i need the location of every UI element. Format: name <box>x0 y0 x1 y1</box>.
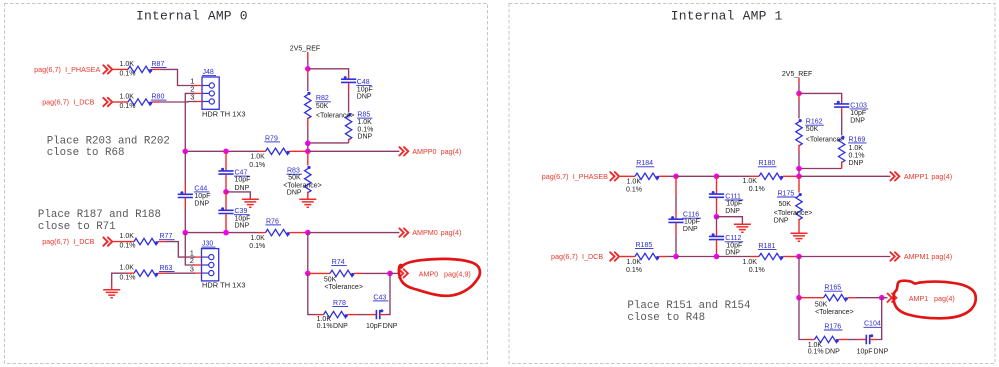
resistor R83 <box>305 166 311 193</box>
svg-text:R175: R175 <box>778 190 795 197</box>
wire loop bottom <box>308 142 349 144</box>
svg-text:10pF: 10pF <box>850 110 866 117</box>
label J48 refdes <box>202 69 216 76</box>
wire AMPP0 left segment <box>185 150 258 152</box>
svg-text:I_DCB: I_DCB <box>582 252 603 261</box>
svg-text:50K: 50K <box>288 174 301 181</box>
port I_PHASEA pag(6,7) <box>34 65 100 74</box>
svg-text:R165: R165 <box>824 285 841 292</box>
label C39 refdes <box>234 208 250 215</box>
wire C103 top lead <box>841 100 843 104</box>
svg-text:0.1%: 0.1% <box>120 274 136 281</box>
svg-text:2V5_REF: 2V5_REF <box>782 71 812 78</box>
svg-text:pag(4): pag(4) <box>931 252 952 261</box>
junction AMPM1 output node <box>796 254 802 260</box>
label R176 refdes <box>824 323 843 330</box>
wire AMPP1 to output <box>799 175 890 177</box>
wire R74 left lead <box>308 272 330 274</box>
junction C111 C112 ground <box>714 214 720 220</box>
svg-text:AMPP1: AMPP1 <box>904 172 928 181</box>
svg-text:J30: J30 <box>202 241 213 248</box>
wire C103 bottom lead <box>841 108 843 115</box>
resistor R85 <box>345 113 351 140</box>
svg-text:HDR TH 1X3: HDR TH 1X3 <box>202 281 246 290</box>
resistor R87 <box>128 66 152 72</box>
wire R175 to ground <box>798 219 800 233</box>
wire C47 bottom lead <box>225 175 227 192</box>
junction AMPM0 at C44 column <box>183 230 189 236</box>
label R181 refdes <box>758 243 777 250</box>
svg-text:50K: 50K <box>324 276 337 283</box>
capacitor C111 <box>709 191 724 197</box>
svg-text:1.0K: 1.0K <box>317 316 332 323</box>
capacitor C47 <box>218 168 233 174</box>
svg-text:<Tolerance>: <Tolerance> <box>774 210 813 217</box>
resistor R169 <box>839 136 845 163</box>
svg-text:0.1%: 0.1% <box>749 186 765 193</box>
wire R175 top lead <box>798 176 800 192</box>
wire right loop bottom <box>799 168 842 170</box>
resistor R175 <box>796 193 802 220</box>
wire R87 to J48 pin 1 <box>161 69 196 85</box>
port I_DCB pag(6,7) right <box>551 252 603 261</box>
svg-text:1.0K: 1.0K <box>120 233 135 240</box>
port AMPP1 pag(4) <box>904 172 952 181</box>
port AMPM0 pag(4) <box>412 228 461 237</box>
wire R78 left lead <box>315 314 324 316</box>
resistor R78 <box>324 311 348 317</box>
resistor R181 <box>759 253 783 259</box>
input chevron I_DCB lower <box>103 237 112 245</box>
svg-text:R63: R63 <box>160 265 173 272</box>
wire C111 bottom lead <box>716 198 718 217</box>
label R180 refdes <box>758 160 777 167</box>
svg-text:pag(4): pag(4) <box>931 172 952 181</box>
capacitor C116 <box>668 216 683 222</box>
svg-text:pag(6,7): pag(6,7) <box>542 172 569 181</box>
svg-text:Place R151 and R154: Place R151 and R154 <box>627 300 750 312</box>
label R165 refdes <box>824 285 843 292</box>
junction AMPM1 at C112 column <box>714 254 720 260</box>
svg-text:DNP: DNP <box>725 208 740 215</box>
wire R181 right lead <box>783 256 799 258</box>
wire R79 right lead <box>290 150 308 152</box>
wire ground stub left <box>111 284 113 290</box>
wire AMP0 loop left side <box>308 273 315 314</box>
wire R74 right lead <box>354 272 362 274</box>
port AMPM1 pag(4) <box>904 252 952 261</box>
svg-text:C44: C44 <box>194 185 207 192</box>
wire to C116 <box>675 195 677 210</box>
svg-text:R80: R80 <box>152 94 165 101</box>
label R74 refdes <box>331 259 347 266</box>
svg-text:J48: J48 <box>203 69 214 76</box>
junction AMP1 left <box>796 295 802 301</box>
svg-text:10pF: 10pF <box>194 193 210 200</box>
highlight circle around AMP0 <box>399 259 480 296</box>
wire 2V5_REF stub right <box>798 78 800 85</box>
wire AMPM1 to R181 <box>717 256 751 258</box>
svg-text:<Tolerance>: <Tolerance> <box>324 284 363 291</box>
output chevron AMPM0 <box>399 228 408 236</box>
svg-text:10pF: 10pF <box>357 86 373 93</box>
svg-text:DNP: DNP <box>725 250 740 257</box>
svg-text:R74: R74 <box>332 259 345 266</box>
svg-text:R85: R85 <box>357 112 370 119</box>
wire C116 top lead <box>675 176 677 195</box>
svg-text:10pF: 10pF <box>726 243 742 250</box>
svg-text:Internal AMP 0: Internal AMP 0 <box>136 9 248 24</box>
svg-text:close to R68: close to R68 <box>47 147 125 159</box>
svg-text:1.0K: 1.0K <box>743 259 758 266</box>
svg-text:0.1%: 0.1% <box>317 323 333 330</box>
label C44 refdes <box>194 185 210 192</box>
svg-text:1.0K: 1.0K <box>627 178 642 185</box>
svg-text:3: 3 <box>190 264 194 273</box>
output chevron AMP1 <box>888 294 897 302</box>
wire AMPP1 to R180 <box>717 175 751 177</box>
wire R83 top lead <box>307 151 309 165</box>
svg-text:50K: 50K <box>806 126 819 133</box>
svg-text:R78: R78 <box>333 300 346 307</box>
highlight circle around AMP1 <box>894 281 976 319</box>
note Place R151 and R154 close to R48 <box>627 300 750 324</box>
wire C48 top lead <box>348 76 350 80</box>
svg-text:10pF: 10pF <box>684 219 700 226</box>
svg-text:I_DCB: I_DCB <box>73 98 94 107</box>
junction AMP0 left <box>305 271 311 277</box>
capacitor C43 <box>376 309 383 319</box>
wire to middle ground right <box>717 217 743 224</box>
svg-text:R181: R181 <box>759 243 776 250</box>
junction AMPP1 at C116 column <box>673 174 679 180</box>
wire R180 right lead <box>783 175 799 177</box>
svg-text:AMP1: AMP1 <box>909 294 929 303</box>
svg-text:C103: C103 <box>850 102 867 109</box>
wire R80 to J48 pin 3 <box>161 101 196 104</box>
port I_PHASEB pag(6,7) <box>542 172 608 181</box>
wire AMP1 loop left side <box>799 298 806 340</box>
svg-text:AMP0: AMP0 <box>419 270 439 279</box>
svg-text:50K: 50K <box>316 103 329 110</box>
wire R185 right lead <box>659 256 667 258</box>
svg-text:1.0K: 1.0K <box>250 235 265 242</box>
svg-text:0.1%: 0.1% <box>808 349 824 356</box>
svg-text:1.0K: 1.0K <box>627 259 642 266</box>
resistor R185 <box>635 253 659 259</box>
wire R185 to junction <box>667 256 676 258</box>
svg-text:pag(6,7): pag(6,7) <box>42 98 69 107</box>
svg-text:R169: R169 <box>849 136 866 143</box>
svg-text:DNP: DNP <box>774 217 789 224</box>
label R77 refdes <box>159 233 175 240</box>
svg-text:Internal AMP 1: Internal AMP 1 <box>671 9 783 24</box>
wire loop top to right branch <box>308 69 349 76</box>
wire R184 right lead <box>659 175 667 177</box>
wire AMP1 to chevron <box>882 297 888 299</box>
wire R162 to loop bottom <box>798 152 800 169</box>
svg-text:R176: R176 <box>824 323 841 330</box>
wire R87 lead right <box>152 68 161 70</box>
svg-text:C111: C111 <box>725 193 741 200</box>
junction AMP0 right <box>387 271 393 277</box>
svg-text:<Tolerance>: <Tolerance> <box>806 136 845 143</box>
label C111 refdes <box>725 193 744 200</box>
wire R78 to C43 <box>357 314 367 316</box>
wire C39 bottom lead <box>225 214 227 233</box>
wire R63 to J30 pin 3 <box>166 272 195 274</box>
svg-text:pag(4): pag(4) <box>441 228 462 237</box>
wire AMPM1 to output <box>799 256 890 258</box>
svg-text:R87: R87 <box>152 61 165 68</box>
svg-text:DNP: DNP <box>825 349 840 356</box>
port AMPP0 pag(4) <box>412 147 461 156</box>
wire AMPM0 to J30 pin 2 <box>185 233 195 265</box>
wire I_PHASEB lead <box>619 175 635 177</box>
svg-text:C104: C104 <box>864 321 881 328</box>
wire R63 to ground <box>112 273 127 283</box>
wire R82 bottom lead <box>307 118 309 127</box>
resistor R80 <box>128 99 152 105</box>
svg-text:0.1%: 0.1% <box>249 162 265 169</box>
svg-text:10pF: 10pF <box>366 323 382 330</box>
input chevron I_PHASEB <box>610 172 619 180</box>
wire C103 to R169 <box>841 114 843 135</box>
label R82 refdes <box>315 95 331 102</box>
capacitor C104 <box>866 334 873 344</box>
wire R63 lead left <box>127 272 134 274</box>
output chevron AMPM1 <box>890 252 899 260</box>
svg-text:1.0K: 1.0K <box>357 119 372 126</box>
svg-text:50K: 50K <box>815 301 828 308</box>
ground middle right panel <box>734 224 751 232</box>
svg-text:DNP: DNP <box>287 190 302 197</box>
wire R181 left lead <box>750 256 759 258</box>
svg-text:DNP: DNP <box>333 323 348 330</box>
svg-text:2V5_REF: 2V5_REF <box>290 45 320 52</box>
wire R82 top lead <box>307 69 309 76</box>
svg-text:close to R48: close to R48 <box>627 312 705 324</box>
wire C47 top lead <box>225 151 227 171</box>
svg-text:pag(6,7): pag(6,7) <box>42 237 69 246</box>
label R169 refdes <box>848 136 867 143</box>
resistor R74 <box>330 270 354 276</box>
svg-text:1.0K: 1.0K <box>743 178 758 185</box>
wire C39 top lead <box>225 192 227 210</box>
svg-text:C47: C47 <box>235 170 248 177</box>
junction AMPP1 at C111 column <box>714 174 720 180</box>
svg-text:DNP: DNP <box>850 118 865 125</box>
junction AMPP0 at C44 column <box>183 149 189 155</box>
svg-text:C116: C116 <box>683 212 699 219</box>
label R175 refdes <box>777 190 796 197</box>
resistor R165 <box>824 295 848 301</box>
junction AMPP0 output node <box>305 149 311 155</box>
input chevron I_PHASEA <box>103 65 112 73</box>
resistor R79 <box>266 148 290 154</box>
wire 2V5_REF down <box>307 59 309 69</box>
svg-text:R76: R76 <box>266 218 279 225</box>
svg-text:1.0K: 1.0K <box>250 154 265 161</box>
svg-text:R79: R79 <box>265 135 278 142</box>
port AMP1 pag(4) <box>909 294 955 303</box>
junction 2V5_REF loop top <box>305 66 311 72</box>
junction loop bottom <box>305 141 311 147</box>
wire C104 left lead <box>858 339 866 341</box>
right panel border <box>509 4 995 364</box>
label R162 refdes <box>805 119 824 126</box>
resistor R184 <box>635 173 659 179</box>
wire C116 bottom lead <box>675 223 677 234</box>
svg-text:pag(4,9): pag(4,9) <box>444 270 471 279</box>
svg-text:AMPP0: AMPP0 <box>412 147 436 156</box>
input chevron I_DCB right <box>610 252 619 260</box>
wire AMPP0 to output <box>308 150 400 152</box>
svg-text:pag(6,7): pag(6,7) <box>551 252 578 261</box>
wire R165 right lead <box>848 297 856 299</box>
ground middle left panel <box>242 199 259 207</box>
junction 2V5_REF loop top right <box>796 91 802 97</box>
svg-text:close to R71: close to R71 <box>38 221 116 233</box>
svg-text:50K: 50K <box>779 201 792 208</box>
ground under R83 <box>299 199 316 207</box>
label R76 refdes <box>266 218 282 225</box>
svg-text:0.1%: 0.1% <box>357 127 373 134</box>
output chevron AMP0 <box>399 269 408 277</box>
label R85 refdes <box>357 112 373 119</box>
port I_DCB pag(6,7) upper <box>42 98 94 107</box>
svg-text:HDR TH 1X3: HDR TH 1X3 <box>202 110 246 119</box>
wire J48 pin 2 to node AMPP0 <box>185 93 195 151</box>
port I_DCB pag(6,7) lower <box>42 237 94 246</box>
wire AMPP0 down to C44 <box>184 151 186 183</box>
svg-text:DNP: DNP <box>874 349 889 356</box>
label C112 refdes <box>725 235 744 242</box>
svg-text:0.1%: 0.1% <box>626 267 642 274</box>
wire to R82 <box>307 76 309 91</box>
wire AMPP1 segment <box>676 175 717 177</box>
svg-text:Place R187 and R188: Place R187 and R188 <box>38 209 161 221</box>
junction AMPP0 at C47 column <box>223 149 229 155</box>
label C48 refdes <box>356 79 372 86</box>
svg-text:R77: R77 <box>160 233 173 240</box>
wire C111 top lead <box>716 176 718 194</box>
svg-text:R82: R82 <box>316 95 329 102</box>
svg-text:DNP: DNP <box>194 201 209 208</box>
wire R165 left lead <box>799 297 824 299</box>
resistor R63 <box>134 270 158 276</box>
capacitor C103 <box>834 101 849 107</box>
wire to node AMPP0 <box>307 143 309 151</box>
note Place R203 and R202 close to R68 <box>47 135 170 159</box>
label R63 refdes <box>159 265 175 272</box>
capacitor C48 <box>341 76 356 82</box>
label C116 refdes <box>682 212 701 219</box>
capacitor C39 <box>218 207 233 213</box>
wire R78 right lead <box>348 314 358 316</box>
svg-text:R180: R180 <box>759 160 776 167</box>
wire R162 bottom lead <box>798 145 800 152</box>
wire to C112 <box>716 217 718 228</box>
label C47 refdes <box>234 170 250 177</box>
wire AMP1 loop right side <box>876 298 882 340</box>
svg-text:<Tolerance>: <Tolerance> <box>283 182 322 189</box>
resistor R82 <box>305 92 311 119</box>
resistor R76 <box>266 229 290 235</box>
wire AMPM0 left segment <box>185 232 258 234</box>
ground under R63 <box>103 290 120 298</box>
svg-text:R184: R184 <box>636 160 653 167</box>
svg-text:10pF: 10pF <box>857 349 873 356</box>
svg-text:10pF: 10pF <box>726 200 742 207</box>
wire AMP0 loop right side <box>386 273 390 314</box>
output chevron AMPP1 <box>890 172 899 180</box>
junction AMPM1 at C116 column <box>673 254 679 260</box>
label R185 refdes <box>635 242 654 249</box>
svg-text:1.0K: 1.0K <box>120 265 135 272</box>
label C104 refdes <box>864 321 883 328</box>
junction AMPM0 at C39 column <box>223 230 229 236</box>
svg-text:10pF: 10pF <box>235 215 251 222</box>
label C43 refdes <box>373 294 389 301</box>
svg-text:<Tolerance>: <Tolerance> <box>815 309 854 316</box>
junction AMPM0 output node <box>305 230 311 236</box>
wire C44 bottom lead <box>184 198 186 209</box>
svg-text:Place R203 and R202: Place R203 and R202 <box>47 135 170 147</box>
wire AMPM1 segment <box>676 256 717 258</box>
wire R77 to J30 pin 1 <box>166 242 195 258</box>
label R87 refdes <box>151 61 167 68</box>
wire C43 left lead <box>367 314 376 316</box>
svg-text:C112: C112 <box>725 235 741 242</box>
wire R184 to junction <box>667 175 676 177</box>
svg-text:DNP: DNP <box>849 160 864 167</box>
wire R79 left lead <box>258 150 266 152</box>
label R79 refdes <box>265 135 281 142</box>
wire to middle ground <box>226 192 250 199</box>
wire R80 lead right <box>152 101 161 103</box>
wire 2V5_REF stub <box>307 52 309 59</box>
junction right loop bottom <box>796 166 802 172</box>
label R184 refdes <box>636 160 655 167</box>
wire C48 to R85 <box>348 90 350 113</box>
wire AMPM1 down to AMP1 node <box>798 257 800 298</box>
svg-text:1.0K: 1.0K <box>120 94 135 101</box>
svg-text:C39: C39 <box>235 208 248 215</box>
wire R85 bottom lead <box>348 139 350 143</box>
wire AMP0 to chevron <box>390 272 399 274</box>
wire C112 top lead <box>716 228 718 236</box>
svg-text:0.1%: 0.1% <box>749 267 765 274</box>
wire AMPM0 down to AMP0 node <box>307 233 309 274</box>
svg-text:DNP: DNP <box>357 94 372 101</box>
wire C104 right lead <box>870 339 876 341</box>
svg-text:C43: C43 <box>373 294 386 301</box>
svg-text:R162: R162 <box>806 119 823 126</box>
wire C44 to node AMPM0 <box>184 209 186 233</box>
svg-text:<Tolerance>: <Tolerance> <box>316 112 355 119</box>
svg-text:R185: R185 <box>636 242 653 249</box>
wire R77 lead right <box>158 241 166 243</box>
wire C48 bottom lead <box>348 83 350 90</box>
svg-text:0.1%: 0.1% <box>849 153 865 160</box>
wire to R162 <box>798 101 800 119</box>
wire C116 to AMPM1 <box>675 234 677 257</box>
wire R82 to loop bottom <box>307 127 309 143</box>
svg-text:0.1%: 0.1% <box>626 186 642 193</box>
svg-text:DNP: DNP <box>235 185 250 192</box>
svg-text:C48: C48 <box>357 79 370 86</box>
